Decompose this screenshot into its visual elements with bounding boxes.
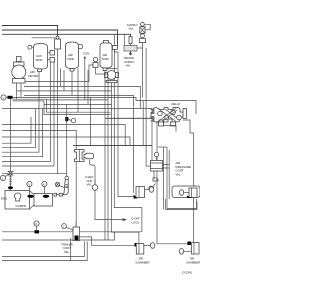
brake supply arrow box bbox=[124, 46, 137, 56]
RR brake chamber bbox=[179, 242, 199, 255]
compressor feed line bbox=[10, 99, 12, 172]
governor under tank3 bbox=[105, 69, 119, 83]
trailer control valve bbox=[62, 223, 80, 241]
wire left h 124 bbox=[2, 125, 125, 146]
circled 8 on main line bbox=[71, 118, 75, 122]
wire v fitting tank2 down bbox=[57, 49, 59, 174]
wire v 70 bbox=[66, 104, 68, 156]
wire brake valve top line bbox=[73, 144, 152, 146]
wire bus top line 2 bbox=[2, 30, 118, 46]
air dryer bbox=[12, 57, 26, 84]
wire bus top line 3 bbox=[2, 34, 131, 36]
coil hose bbox=[9, 175, 12, 186]
svg-text:VAL.: VAL. bbox=[87, 183, 93, 187]
wire dryer purge a bbox=[24, 86, 140, 108]
svg-text:DRYER: DRYER bbox=[29, 74, 39, 78]
svg-text:VAL.: VAL. bbox=[64, 250, 70, 254]
wire relay bottom stub bbox=[158, 146, 167, 148]
left staircase wire 5 bbox=[2, 62, 50, 162]
wire v 90 bbox=[89, 97, 91, 145]
wire b3 bbox=[2, 241, 84, 256]
circled part apcv bbox=[149, 186, 154, 191]
wire v 88 bbox=[87, 70, 89, 104]
wire bus top line 1 bbox=[2, 26, 58, 40]
wire dryer purge c bbox=[24, 95, 134, 193]
left staircase wire 1 bbox=[2, 117, 31, 143]
svg-text:TANK: TANK bbox=[102, 57, 109, 61]
wire bus3 drop at 124 bbox=[123, 34, 125, 45]
air pressure cont valve bbox=[151, 152, 163, 181]
wire apcv right ports bbox=[163, 165, 170, 169]
wire bv right elbow to chk valve bbox=[90, 160, 96, 184]
wire brake valve down to trailer valve bbox=[75, 162, 77, 227]
wire v tank3 left bbox=[96, 68, 109, 241]
trailer valve to RL chamber bbox=[80, 237, 135, 245]
svg-text:TANK: TANK bbox=[67, 57, 74, 61]
hose fitting bbox=[8, 172, 12, 176]
relay to RR right pipe bbox=[183, 120, 194, 243]
brake valve bbox=[75, 150, 94, 162]
circled 9 junction bbox=[34, 221, 39, 226]
wire dryer purge b bbox=[17, 90, 112, 92]
circled 2 bbox=[0, 175, 5, 180]
svg-text:CHAMBER: CHAMBER bbox=[186, 260, 200, 264]
tank T1 AUX TANK bbox=[28, 44, 48, 72]
inline component below bus3 bbox=[129, 37, 132, 44]
svg-text:COMPR: COMPR bbox=[16, 204, 26, 208]
svg-text:VAL.: VAL. bbox=[126, 64, 132, 68]
fitting tank1 right bbox=[48, 51, 55, 63]
wire chk valve to diff lock arrow bbox=[95, 190, 126, 220]
svg-text:CX2341: CX2341 bbox=[182, 271, 193, 275]
tank T2 AIR TANK bbox=[66, 42, 83, 71]
wire v tank2 right bbox=[77, 69, 79, 113]
wire v 143 bbox=[142, 101, 144, 146]
wire connector line 2 bbox=[13, 99, 111, 112]
circled 6 bbox=[42, 181, 47, 186]
wire v tank3 drain bbox=[104, 71, 106, 241]
wire left h 137 bbox=[2, 137, 130, 145]
wire v tank2 drain bbox=[71, 71, 73, 95]
wire v FL feed bbox=[118, 56, 134, 197]
wire mid h 104.4 bbox=[44, 103, 112, 105]
svg-text:CHAMBER: CHAMBER bbox=[136, 260, 150, 264]
wire v 146 to APCV bbox=[146, 48, 150, 166]
black connector compressor bbox=[8, 186, 13, 189]
wire connector to relay box bbox=[13, 97, 197, 114]
black connector b bbox=[43, 195, 49, 198]
fitting on tank2 left bbox=[55, 36, 61, 49]
supply valve chain top right bbox=[139, 22, 150, 48]
check valve tank3 left bbox=[89, 57, 98, 81]
svg-text:TANK: TANK bbox=[35, 58, 42, 62]
FL brake chamber bbox=[134, 187, 154, 199]
fitting tank3 right bbox=[113, 46, 119, 57]
junction black connector top left bbox=[8, 96, 13, 99]
svg-text:CON: CON bbox=[83, 52, 89, 56]
wire dryer purge a0 bbox=[17, 81, 89, 83]
svg-text:VAL.: VAL. bbox=[176, 172, 182, 176]
compressor bbox=[5, 191, 34, 210]
left staircase wire 6 bbox=[2, 62, 54, 166]
wire b2 bbox=[2, 232, 115, 240]
relay down to RR connector bbox=[157, 121, 187, 244]
wire relay drain vertical bbox=[163, 147, 165, 210]
compressor outlet pipe with riser tube bbox=[54, 156, 68, 196]
FR brake chamber box bbox=[172, 186, 200, 198]
wire mid h 99.9 bbox=[47, 99, 109, 101]
wire v supply bbox=[142, 48, 144, 97]
FR loop under box bbox=[166, 199, 197, 210]
wire connector line 3 bbox=[13, 101, 111, 115]
wire b1 to RL top bbox=[2, 231, 142, 233]
RL brake chamber bbox=[135, 243, 155, 254]
tank T3 AIR TANK bbox=[100, 41, 112, 71]
wire main line to relay bbox=[105, 113, 152, 118]
black connector a bbox=[27, 195, 33, 198]
left staircase wire 4 bbox=[2, 109, 43, 157]
junction connector on main line bbox=[65, 117, 68, 121]
wire v tank2 left bbox=[59, 69, 61, 87]
wire FR second vertical bbox=[168, 150, 170, 199]
left staircase wire 7 bbox=[2, 173, 67, 175]
wire tank1 top line bbox=[32, 37, 56, 39]
relay valve piping lower bbox=[164, 119, 177, 132]
wire v con bbox=[84, 62, 86, 100]
svg-text:LOCK: LOCK bbox=[132, 220, 140, 224]
gauge symbol bbox=[55, 182, 59, 186]
wire left h to brake valve bbox=[2, 131, 76, 150]
circled 1 bbox=[1, 95, 6, 100]
wire dryer down lines bbox=[17, 83, 22, 99]
trailer loop bbox=[70, 238, 72, 261]
wire bus3 drop to FR loop bbox=[114, 34, 142, 232]
wire b4 bbox=[2, 242, 87, 261]
intake duct box bbox=[34, 194, 53, 207]
wire v governor bbox=[112, 83, 139, 243]
left staircase wire 3 bbox=[2, 72, 39, 153]
svg-text:ENG: ENG bbox=[1, 197, 7, 201]
wire v 64 bbox=[63, 70, 65, 91]
wire left h APCV bbox=[2, 109, 152, 161]
circled 5 bbox=[27, 181, 32, 186]
2-way check valve bbox=[92, 180, 98, 190]
wire FR feed bbox=[167, 147, 197, 209]
left staircase wire 2 bbox=[2, 109, 35, 148]
svg-text:VAL.: VAL. bbox=[129, 27, 135, 31]
